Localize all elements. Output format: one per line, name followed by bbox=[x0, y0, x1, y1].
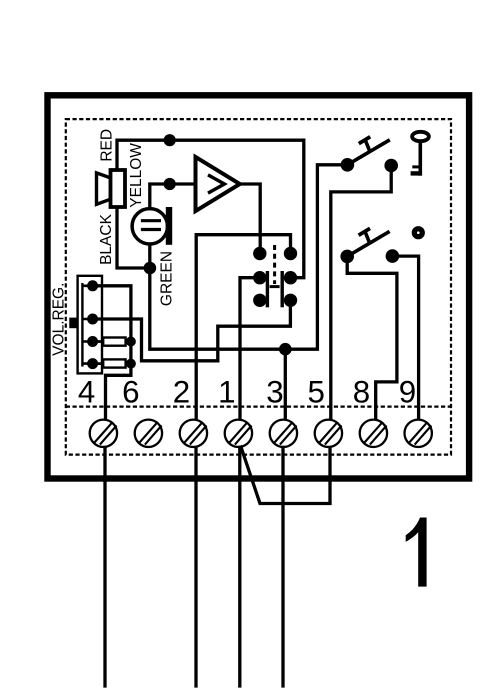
key symbol tooth upper bbox=[412, 165, 420, 168]
speaker LS1 driver bbox=[111, 170, 126, 207]
node on RED wire bbox=[164, 134, 176, 146]
svg-text:5: 5 bbox=[307, 374, 324, 409]
terminal screw slots bbox=[95, 422, 432, 445]
volume regulator VR1 tap stubs bbox=[82, 286, 92, 364]
dashed internal boundary bbox=[66, 119, 451, 455]
wire YELLOW (microphone + to amplifier input) bbox=[150, 184, 196, 219]
key symbol stem bbox=[418, 141, 422, 176]
relay K1 contact dots left column bbox=[253, 247, 266, 260]
microphone M1 electret bar bbox=[166, 207, 172, 245]
terminal 9 screw bbox=[405, 420, 432, 447]
svg-text:3: 3 bbox=[266, 374, 283, 409]
relay K1 actuator dashed link bbox=[273, 245, 276, 284]
svg-text:VOL.REG.: VOL.REG. bbox=[50, 283, 67, 356]
external wire from terminal 1 bbox=[238, 447, 241, 686]
microphone M1 plate bottom bbox=[141, 228, 161, 231]
svg-text:GREEN: GREEN bbox=[159, 251, 176, 306]
svg-text:RED: RED bbox=[99, 129, 116, 162]
node R1 output bbox=[126, 337, 136, 347]
switch S1 left contact bbox=[341, 158, 355, 172]
volume regulator VR1 taps bbox=[87, 280, 98, 291]
volume regulator VR1 body bbox=[78, 276, 102, 374]
node R2 output bbox=[126, 359, 136, 369]
dashed terminal-strip separator bbox=[66, 406, 451, 408]
switch S2 wire right contact to terminal 9 bbox=[399, 256, 419, 419]
volume regulator VR1 wiper marker bbox=[69, 318, 78, 329]
switch S1 button stem bbox=[366, 141, 370, 150]
node on YELLOW wire bbox=[164, 178, 176, 190]
external wire from terminal 2 bbox=[194, 447, 197, 686]
node bus/terminal-3 junction bbox=[279, 343, 292, 356]
wire relay bottom-right to volume regulator wiper bbox=[94, 299, 290, 361]
wire relay middle-left to terminal 1 bbox=[240, 278, 258, 420]
switch S1 wire right contact to terminal 5 bbox=[331, 172, 391, 420]
switch S1 right contact bbox=[384, 159, 398, 173]
terminal 6 screw bbox=[135, 420, 162, 447]
wire relay top-right to terminal 2 bbox=[196, 235, 290, 420]
speaker LS1 cone bbox=[97, 173, 111, 204]
volume regulator VR1 element bar bbox=[81, 283, 83, 367]
switch S2 left contact bbox=[340, 250, 354, 264]
resistor R1 bbox=[103, 338, 125, 346]
wire terminal 3 branch bbox=[284, 349, 287, 419]
resistor R1 stub bbox=[93, 340, 131, 343]
switch S1 button cap bbox=[359, 137, 370, 144]
wire BLACK (speaker - lead to green node) bbox=[117, 207, 148, 268]
terminal 3 screw bbox=[270, 420, 297, 447]
svg-text:9: 9 bbox=[399, 374, 416, 409]
key symbol head bbox=[412, 132, 429, 141]
svg-text:4: 4 bbox=[78, 374, 95, 409]
switch S1 lever bbox=[347, 140, 389, 165]
op-amp U1 triangle bbox=[196, 157, 240, 211]
outer unit box bbox=[48, 95, 470, 478]
wire amplifier output to relay contact K1 top-left bbox=[240, 184, 260, 254]
svg-text:8: 8 bbox=[353, 374, 370, 409]
relay K1 contact bar right bbox=[281, 271, 284, 307]
svg-text:6: 6 bbox=[122, 374, 139, 409]
volume regulator VR1 wires: top tap bus to terminal 4 bbox=[94, 286, 131, 420]
terminal screws row bbox=[90, 420, 432, 447]
relay K1 contact bar left bbox=[266, 271, 269, 307]
switch S2 button cap bbox=[359, 228, 370, 235]
terminal 5 screw bbox=[315, 420, 342, 447]
external wire from terminal 3 bbox=[281, 447, 284, 686]
key symbol tooth lower bbox=[411, 171, 421, 175]
svg-text:2: 2 bbox=[173, 374, 190, 409]
svg-text:1: 1 bbox=[218, 374, 235, 409]
terminal 4 screw bbox=[90, 420, 117, 447]
relay K1 actuator foot bbox=[270, 285, 280, 288]
relay K1 contact dots right column bbox=[284, 247, 297, 260]
resistor R2 bbox=[103, 359, 125, 367]
svg-text:YELLOW: YELLOW bbox=[128, 143, 145, 208]
wire GREEN (mic - down, bus to switch S1 left) bbox=[150, 165, 348, 349]
resistor R2 stub bbox=[93, 362, 131, 365]
switch S2 button stem bbox=[365, 233, 369, 242]
switch S2 wire left contact to terminal 8 bbox=[347, 263, 397, 420]
figure number 1 bbox=[406, 518, 427, 587]
wire RED (speaker + lead to relay common right) bbox=[117, 140, 304, 278]
external jumper terminal 1 to terminal 5 bbox=[241, 447, 330, 504]
switch S2 right contact bbox=[386, 249, 400, 263]
terminal 2 screw bbox=[180, 420, 207, 447]
node GREEN junction bbox=[144, 262, 157, 275]
microphone M1 body bbox=[132, 209, 167, 244]
microphone M1 plate top bbox=[141, 219, 161, 222]
lamp/indicator dot bbox=[412, 226, 425, 239]
terminal 1 screw bbox=[225, 420, 252, 447]
terminal 8 screw bbox=[360, 420, 387, 447]
svg-text:BLACK: BLACK bbox=[98, 213, 115, 264]
external wire from terminal 4 bbox=[103, 447, 106, 686]
switch S2 lever bbox=[347, 231, 389, 256]
op-amp U1 gain chevron bbox=[208, 175, 224, 193]
